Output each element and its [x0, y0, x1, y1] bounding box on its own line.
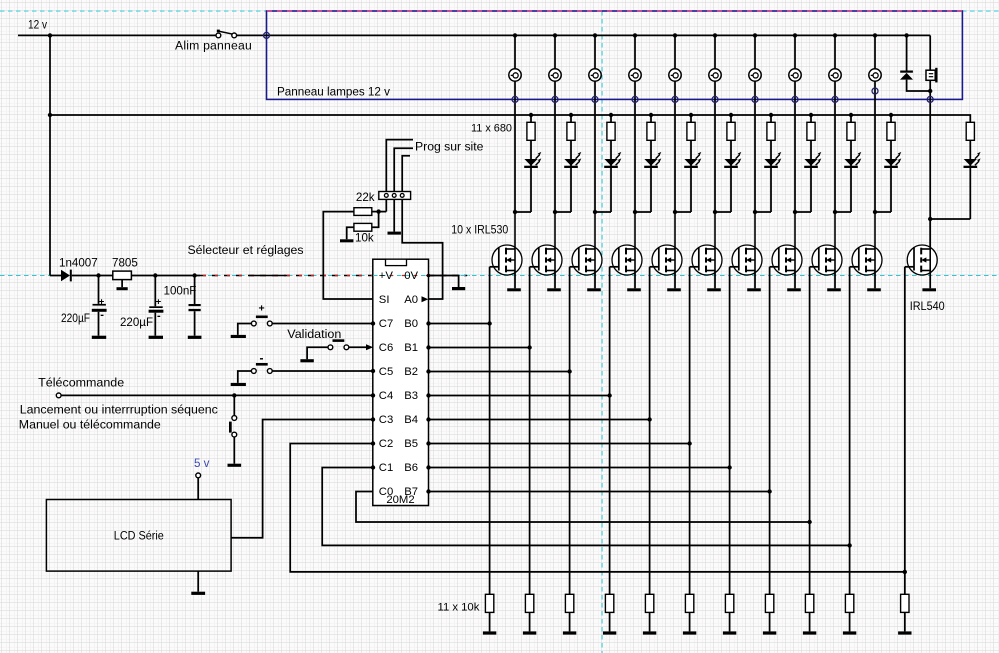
- wire branch 7 to drain junction: [755, 211, 771, 213]
- wire lamp L1 feed: [514, 35, 516, 69]
- svg-text:Manuel ou télécommande: Manuel ou télécommande: [19, 418, 161, 432]
- resistor R16 10k: [645, 594, 653, 612]
- wire lamp L10 to drain: [874, 81, 876, 212]
- svg-text:+: +: [156, 296, 162, 307]
- node panel edge crossing: [264, 32, 270, 38]
- resistor R22 10k: [901, 594, 909, 612]
- lamp L1: [509, 69, 521, 81]
- wire lamp L4 to drain: [634, 81, 636, 212]
- resistor R1 680: [527, 122, 535, 140]
- node télécommande terminal: [56, 393, 61, 398]
- wire branch 2 to drain junction: [555, 211, 571, 213]
- resistor R4 680: [647, 122, 655, 140]
- wire source 10 to ground: [874, 271, 876, 289]
- svg-text:+: +: [99, 296, 105, 307]
- ground source 7: [747, 288, 761, 291]
- wire 5v dashed to +V: [200, 275, 467, 277]
- transistor Q5 IRL530: [652, 212, 682, 275]
- lamp L2: [549, 69, 561, 81]
- wire S3 to C6: [349, 346, 366, 348]
- wire R21 to ground: [849, 612, 851, 631]
- wire R7 to LED: [770, 140, 772, 212]
- wire R11 to LED: [969, 140, 971, 219]
- wire R5 to LED: [690, 140, 692, 212]
- wire 12v rail to panel: [237, 34, 931, 36]
- wire B7 to gate 8: [429, 491, 770, 493]
- wire J1 pin1 down: [385, 199, 387, 211]
- wire 680-resistor rail: [50, 115, 970, 122]
- junction dot C3: [192, 273, 196, 277]
- wire gate 9: [810, 266, 819, 268]
- lamp L3: [589, 69, 601, 81]
- junction dot drain 7: [753, 210, 757, 214]
- wire lamp L9 feed: [834, 35, 836, 69]
- svg-text:LCD Série: LCD Série: [114, 529, 164, 543]
- resistor R15 10k: [605, 594, 613, 612]
- arrow C6 input: [366, 344, 373, 350]
- ground R16: [643, 631, 656, 634]
- node panel exit buzzer: [927, 96, 933, 102]
- transistor IRL540: [907, 219, 937, 275]
- junction dot drain 5: [673, 210, 677, 214]
- led D6: [724, 159, 737, 166]
- ground source 4: [627, 288, 641, 291]
- led D9: [844, 159, 857, 166]
- wire R19 to ground: [769, 612, 771, 631]
- svg-text:220µF: 220µF: [120, 316, 153, 329]
- svg-text:220µF: 220µF: [61, 312, 90, 325]
- wire indicator branch 5: [689, 113, 693, 117]
- wire indicator branch 2: [569, 113, 573, 117]
- wire branch 10 to drain junction: [875, 211, 891, 213]
- wire B5 to gate 6: [429, 443, 690, 445]
- ground 10k: [340, 239, 353, 242]
- junction dot C2: [153, 273, 157, 277]
- ground R12: [483, 631, 496, 634]
- wire J1 pin2 up: [394, 148, 413, 191]
- wire J1 pin3 to A0: [402, 199, 442, 299]
- ground R22: [898, 631, 911, 634]
- wire buzzer to IRL540 drain: [929, 80, 931, 249]
- wire lamp L8 to drain: [794, 81, 796, 212]
- junction dot drain 3: [593, 210, 597, 214]
- ground R13: [523, 631, 536, 634]
- node panel exit L1: [512, 96, 518, 102]
- resistor R5 680: [687, 122, 695, 140]
- ground source 1: [507, 288, 521, 291]
- switch S1 Alim panneau: [217, 30, 220, 33]
- wire source 5 to ground: [674, 271, 676, 289]
- wire R4 to LED: [650, 140, 652, 212]
- ground R15: [603, 631, 616, 634]
- wire B4 to gate 5: [429, 419, 650, 421]
- junction dot C1: [96, 273, 100, 277]
- ground R20: [803, 631, 816, 634]
- transistor Q1 IRL530: [492, 212, 522, 275]
- led D11: [964, 159, 977, 166]
- lamp L9: [829, 69, 841, 81]
- wire R2 to LED: [570, 140, 572, 212]
- led D8: [804, 159, 817, 166]
- wire indicator branch 7: [769, 113, 773, 117]
- wire lamp L6 feed: [714, 35, 716, 69]
- wire R14 to ground: [569, 612, 571, 631]
- wire R16 to ground: [649, 612, 651, 631]
- wire source 9 to ground: [834, 271, 836, 289]
- wire S2 to ground: [238, 324, 252, 335]
- wire gate 6: [690, 266, 699, 268]
- svg-text:10 x IRL530: 10 x IRL530: [451, 223, 508, 236]
- page break guide vertical: [601, 11, 603, 653]
- svg-text:SI: SI: [379, 294, 390, 306]
- wire indicator branch 8: [809, 113, 813, 117]
- transistor Q3 IRL530: [572, 212, 602, 275]
- junction dot left vertical: [48, 33, 52, 37]
- resistor R8 680: [807, 122, 815, 140]
- node panel exit L10: [872, 88, 878, 94]
- wire indicator branch 9: [849, 113, 853, 117]
- ground S2: [231, 335, 246, 338]
- wire C3 to LCD: [231, 420, 373, 538]
- svg-text:C0: C0: [379, 486, 393, 498]
- ground source 8: [787, 288, 801, 291]
- svg-text:C4: C4: [379, 390, 393, 402]
- wire gate 4: [610, 266, 619, 268]
- wire R8 to LED: [810, 140, 812, 212]
- svg-text:C7: C7: [379, 318, 393, 330]
- wire lamp L1 to drain: [514, 81, 516, 212]
- wire indicator branch 1: [529, 113, 533, 117]
- svg-text:100nF: 100nF: [164, 285, 197, 298]
- wire gate 3: [570, 266, 579, 268]
- wire lamp L3 feed: [594, 35, 596, 69]
- resistor R20 10k: [805, 594, 813, 612]
- wire source 8 to ground: [794, 271, 796, 289]
- node panel exit L5: [672, 96, 678, 102]
- display LCD Série: [46, 500, 231, 572]
- transistor Q10 IRL530: [852, 212, 882, 275]
- transistor Q9 IRL530: [812, 212, 842, 275]
- transistor Q7 IRL530: [732, 212, 762, 275]
- node panel exit L9: [832, 96, 838, 102]
- wire 22k left to SI: [323, 212, 373, 299]
- resistor R9 680: [847, 122, 855, 140]
- svg-text:7805: 7805: [112, 257, 138, 270]
- ground C3: [188, 336, 202, 339]
- wire source 6 to ground: [714, 271, 716, 289]
- wire source 7 to ground: [754, 271, 756, 289]
- ground R14: [563, 631, 576, 634]
- svg-text:B1: B1: [404, 342, 418, 354]
- junction dot drain 4: [633, 210, 637, 214]
- ground C2: [149, 336, 163, 339]
- resistor R6 680: [727, 122, 735, 140]
- svg-text:1n4007: 1n4007: [59, 257, 98, 270]
- wire branch 4 to drain junction: [635, 211, 651, 213]
- wire R12 to ground: [489, 612, 491, 631]
- wire R6 to LED: [730, 140, 732, 212]
- wire B1 to gate 2: [429, 347, 530, 349]
- node panel exit L2: [552, 96, 558, 102]
- wire S4 to ground: [238, 371, 252, 383]
- junction dot drain 11: [928, 217, 932, 221]
- junction dot drain 10: [873, 210, 877, 214]
- wire branch 3 to drain junction: [595, 211, 611, 213]
- wire gate 11: [905, 266, 914, 268]
- junction dot rail at left vertical: [48, 113, 52, 117]
- wire S2 to C7: [272, 323, 373, 325]
- wire R9 to LED: [850, 140, 852, 212]
- svg-text:12 v: 12 v: [28, 18, 48, 32]
- svg-text:C6: C6: [379, 342, 393, 354]
- wire source 11 to ground: [929, 271, 931, 289]
- wire gate 7: [730, 266, 739, 268]
- wire branch 11 to drain junction: [930, 218, 970, 220]
- ground S5: [228, 464, 242, 467]
- wire 0V to ground: [429, 276, 459, 288]
- svg-text:10k: 10k: [355, 232, 374, 245]
- node panel exit L7: [752, 96, 758, 102]
- wire lamp L7 feed: [754, 35, 756, 69]
- ground S3: [300, 359, 313, 362]
- wire R17 to ground: [689, 612, 691, 631]
- wire divider to 10k: [372, 212, 379, 228]
- wire R3 to LED: [610, 140, 612, 212]
- wire R13 to ground: [529, 612, 531, 631]
- wire R20 to ground: [809, 612, 811, 631]
- lamp L7: [749, 69, 761, 81]
- node panel exit L6: [712, 96, 718, 102]
- wire lamp L5 feed: [674, 35, 676, 69]
- wire B0 to gate 1: [429, 323, 490, 325]
- wire source 2 to ground: [554, 271, 556, 289]
- svg-text:A0: A0: [404, 294, 418, 306]
- junction dot drain 6: [713, 210, 717, 214]
- svg-text:22k: 22k: [356, 191, 375, 204]
- svg-text:-: -: [100, 309, 104, 321]
- junction dot drain 9: [833, 210, 837, 214]
- node 5v terminal: [196, 473, 201, 478]
- svg-text:Prog sur site: Prog sur site: [415, 140, 484, 154]
- wire 5v to LCD: [197, 478, 199, 500]
- svg-text:B7: B7: [404, 486, 418, 498]
- wire branch 1 to drain junction: [515, 211, 531, 213]
- svg-text:Télécommande: Télécommande: [38, 376, 124, 390]
- resistor R12 10k: [485, 594, 493, 612]
- led D1: [524, 159, 537, 166]
- junction dot drain 1: [513, 210, 517, 214]
- wire lamp L7 to drain: [754, 81, 756, 212]
- resistor R7 680: [767, 122, 775, 140]
- svg-text:IRL540: IRL540: [910, 300, 945, 313]
- node panel exit L8: [792, 96, 798, 102]
- wire lamp L9 to drain: [834, 81, 836, 212]
- svg-text:-: -: [260, 351, 264, 365]
- ground source 10: [867, 288, 881, 291]
- transistor Q2 IRL530: [532, 212, 562, 275]
- wire B6 to gate 7: [429, 467, 730, 469]
- svg-text:C1: C1: [379, 462, 393, 474]
- wire J1 pin2 to ground: [393, 199, 395, 231]
- svg-text:B6: B6: [404, 462, 418, 474]
- wire R1 to LED: [530, 140, 532, 212]
- wire gate 8: [770, 266, 779, 268]
- wire S5 to ground: [233, 437, 235, 464]
- svg-text:Validation: Validation: [287, 327, 341, 341]
- svg-text:11 x 10k: 11 x 10k: [438, 602, 480, 614]
- junction dot buzzer/diode: [928, 89, 932, 93]
- wire S4 to C5: [272, 370, 373, 372]
- wire R22 to ground: [904, 612, 906, 631]
- wire gate 5: [650, 266, 659, 268]
- led D3: [604, 159, 617, 166]
- ground R19: [763, 631, 776, 634]
- led D7: [764, 159, 777, 166]
- page break guide horizontal middle: [0, 275, 999, 277]
- svg-text:-: -: [157, 310, 161, 322]
- lamp L5: [669, 69, 681, 81]
- ground 0V: [452, 287, 465, 290]
- resistor R13 10k: [525, 594, 533, 612]
- wire indicator branch 10: [889, 113, 893, 117]
- resistor R17 10k: [685, 594, 693, 612]
- wire lamp L6 to drain: [714, 81, 716, 212]
- ground C1: [92, 336, 106, 339]
- wire lamp L2 to drain: [554, 81, 556, 212]
- wire 12v to regulator: [50, 275, 61, 277]
- wire R10 to LED: [890, 140, 892, 212]
- svg-text:B2: B2: [404, 366, 418, 378]
- transistor Q8 IRL530: [772, 212, 802, 275]
- switch S5 manuel: [233, 395, 235, 415]
- svg-text:11 x 680: 11 x 680: [471, 123, 512, 135]
- svg-text:5 v: 5 v: [194, 457, 210, 470]
- ground 7805: [117, 287, 128, 290]
- svg-text:B5: B5: [404, 438, 418, 450]
- wire LCD to ground: [197, 571, 199, 592]
- diode D12 flyback: [906, 35, 908, 70]
- wire B2 to gate 3: [429, 371, 570, 373]
- wire 12v rail left: [18, 34, 216, 36]
- wire C2 to gate 11: [290, 444, 905, 572]
- wire lamp L5 to drain: [674, 81, 676, 212]
- ground source 9: [827, 288, 841, 291]
- wire branch 5 to drain junction: [675, 211, 691, 213]
- svg-text:Panneau lampes 12 v: Panneau lampes 12 v: [277, 85, 391, 99]
- led D5: [684, 159, 697, 166]
- wire main left vertical: [49, 35, 51, 275]
- svg-text:B3: B3: [404, 390, 418, 402]
- node panel exit L4: [632, 96, 638, 102]
- junction dot drain 8: [793, 210, 797, 214]
- transistor Q6 IRL530: [692, 212, 722, 275]
- svg-text:Alim panneau: Alim panneau: [175, 39, 252, 53]
- junction dot divider: [376, 209, 380, 213]
- svg-text:C5: C5: [379, 366, 393, 378]
- buzzer BZ1: [929, 35, 931, 70]
- ground source 11: [922, 288, 936, 291]
- wire lamp L4 feed: [634, 35, 636, 69]
- svg-text:+V: +V: [379, 270, 394, 282]
- led D10: [884, 159, 897, 166]
- connector J1 prog: [379, 192, 411, 200]
- wire source 3 to ground: [594, 271, 596, 289]
- panel box Panneau lampes 12 v: [267, 11, 963, 99]
- page break overlay on panel top edge: [267, 10, 962, 12]
- lamp L10: [869, 69, 881, 81]
- wire télécommande to C4: [61, 394, 373, 396]
- page break guide horizontal top: [0, 10, 267, 12]
- wire R15 to ground: [609, 612, 611, 631]
- wire C1 to gate 10: [322, 468, 849, 546]
- wire branch 6 to drain junction: [715, 211, 731, 213]
- resistor R21 10k: [845, 594, 853, 612]
- wire lamp L10 feed: [874, 35, 876, 69]
- wire B3 to gate 4: [429, 395, 610, 397]
- wire 22k right: [372, 211, 387, 213]
- resistor R10 680: [887, 122, 895, 140]
- wire source 1 to ground: [514, 271, 516, 289]
- wire J1 pin1 up: [386, 140, 413, 192]
- IC notch: [386, 259, 407, 265]
- node panel exit L3: [592, 96, 598, 102]
- svg-text:B0: B0: [404, 318, 418, 330]
- svg-text:Sélecteur et réglages: Sélecteur et réglages: [188, 243, 304, 257]
- wire indicator branch 3: [609, 113, 613, 117]
- lamp L8: [789, 69, 801, 81]
- wire branch 9 to drain junction: [835, 211, 851, 213]
- svg-text:C2: C2: [379, 438, 393, 450]
- wire S3 to ground: [307, 347, 328, 359]
- svg-text:C3: C3: [379, 414, 393, 426]
- lamp L4: [629, 69, 641, 81]
- wire source 4 to ground: [634, 271, 636, 289]
- wire gate 10: [850, 266, 859, 268]
- wire lamp L3 to drain: [594, 81, 596, 212]
- ground R21: [843, 631, 856, 634]
- op IC U1 PICAXE 20M2: [373, 259, 429, 505]
- wire R18 to ground: [729, 612, 731, 631]
- wire gate 1: [490, 266, 499, 268]
- ground source 2: [547, 288, 561, 291]
- ground R18: [723, 631, 736, 634]
- wire indicator branch 6: [729, 113, 733, 117]
- wire C0 to gate 9: [356, 492, 810, 523]
- ground source 3: [587, 288, 601, 291]
- led D4: [644, 159, 657, 166]
- resistor R2 680: [567, 122, 575, 140]
- lamp L6: [709, 69, 721, 81]
- resistor R14 10k: [565, 594, 573, 612]
- wire indicator branch 4: [649, 113, 653, 117]
- wire lamp L8 feed: [794, 35, 796, 69]
- led D2: [564, 159, 577, 166]
- wire 5v to caps: [131, 275, 200, 277]
- junction dot drain 2: [553, 210, 557, 214]
- ground source 5: [667, 288, 681, 291]
- svg-text:+: +: [259, 303, 265, 315]
- wire lamp L2 feed: [554, 35, 556, 69]
- ground source 6: [707, 288, 721, 291]
- svg-text:Lancement ou interrruption séq: Lancement ou interrruption séquenc: [20, 403, 218, 417]
- transistor Q4 IRL530: [612, 212, 642, 275]
- wire J1 pin3 up: [402, 156, 410, 192]
- page break overlay across IC: [373, 275, 470, 277]
- resistor R19 10k: [765, 594, 773, 612]
- resistor R3 680: [607, 122, 615, 140]
- wire gate 2: [530, 266, 539, 268]
- ground J1 pin2: [388, 232, 401, 235]
